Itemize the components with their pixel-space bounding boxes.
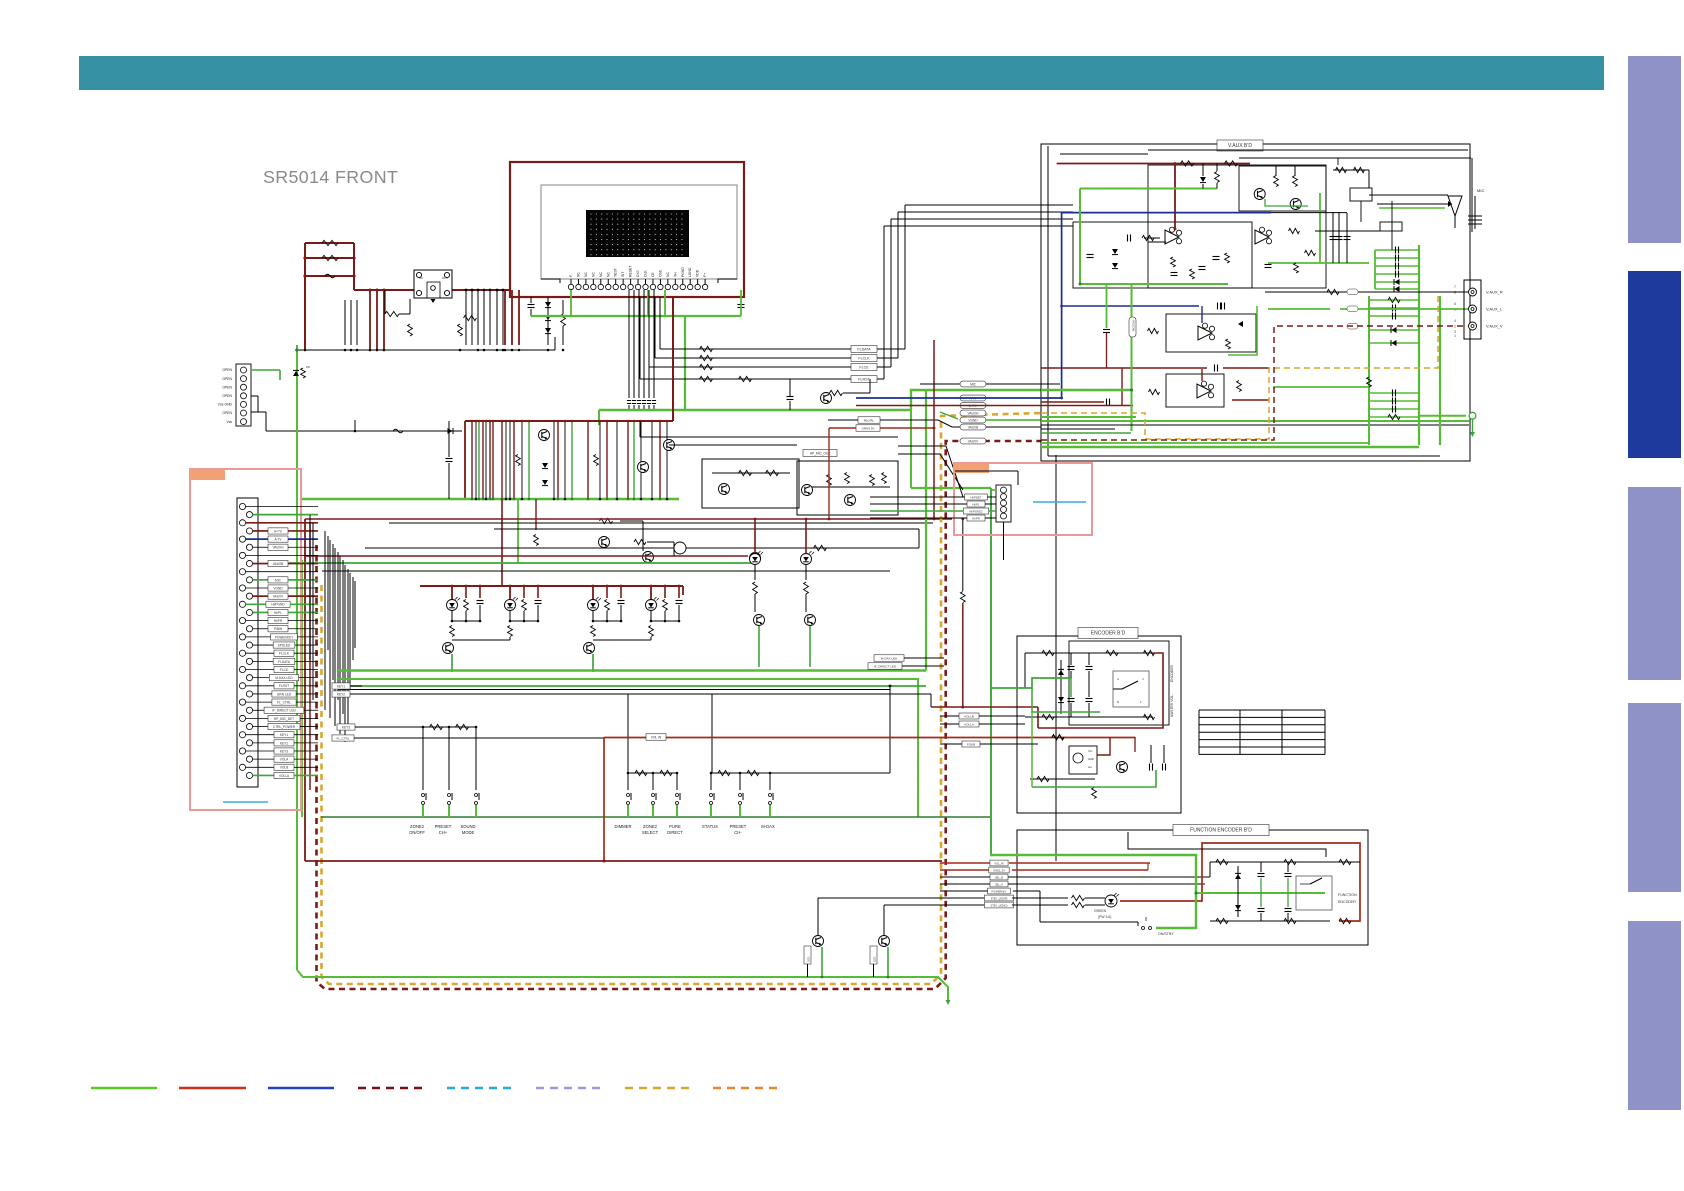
svg-text:KEY1: KEY1 <box>337 684 345 688</box>
svg-text:V.AUX_V: V.AUX_V <box>1486 324 1503 329</box>
svg-text:VH: VH <box>673 272 677 277</box>
svg-text:1: 1 <box>1454 334 1456 338</box>
svg-text:OPEN: OPEN <box>222 411 232 415</box>
svg-text:A: A <box>1117 677 1119 681</box>
svg-text:VOLLA: VOLLA <box>964 722 974 726</box>
svg-text:MIC: MIC <box>1477 188 1484 193</box>
svg-text:VAUXH: VAUXH <box>968 411 979 415</box>
svg-text:OPEN: OPEN <box>222 377 232 381</box>
svg-text:SR5014 FRONT: SR5014 FRONT <box>263 167 398 187</box>
svg-text:GREEN: GREEN <box>1094 909 1107 913</box>
svg-text:(PW 3.6): (PW 3.6) <box>1098 915 1111 919</box>
svg-text:OUT: OUT <box>442 276 449 280</box>
svg-text:STBY_LED(R): STBY_LED(R) <box>991 896 1008 900</box>
svg-text:TEST: TEST <box>614 268 618 277</box>
svg-text:KEY2: KEY2 <box>280 741 288 745</box>
svg-text:POWERKEY: POWERKEY <box>992 889 1007 893</box>
svg-text:GRN3.3V: GRN3.3V <box>862 426 875 430</box>
svg-text:VOLA: VOLA <box>280 758 289 762</box>
svg-text:INT: INT <box>621 272 625 277</box>
svg-text:HI/PDET: HI/PDET <box>970 495 981 499</box>
svg-text:HI/PGND: HI/PGND <box>271 603 285 607</box>
svg-text:VOLLB: VOLLB <box>964 714 974 718</box>
svg-text:FLRST: FLRST <box>858 377 870 381</box>
svg-text:HI/PL: HI/PL <box>274 611 282 615</box>
svg-text:NC: NC <box>591 272 595 277</box>
svg-text:V.AUX_R: V.AUX_R <box>1486 290 1503 295</box>
svg-text:CH-: CH- <box>734 830 742 835</box>
svg-text:SEL_B: SEL_B <box>995 875 1003 879</box>
svg-text:2: 2 <box>1454 325 1456 329</box>
svg-text:FLRST: FLRST <box>279 684 289 688</box>
svg-text:DX0: DX0 <box>636 270 640 277</box>
svg-text:ON/OFF: ON/OFF <box>409 830 425 835</box>
svg-text:M-DAX: M-DAX <box>761 824 775 829</box>
svg-text:SOUND: SOUND <box>460 824 475 829</box>
svg-text:out: out <box>1088 765 1092 769</box>
svg-text:DIMMER: DIMMER <box>615 824 632 829</box>
svg-text:DIRECT: DIRECT <box>667 830 683 835</box>
svg-text:OPEN: OPEN <box>222 368 232 372</box>
svg-text:CE: CE <box>651 272 655 277</box>
svg-text:Vss: Vss <box>226 420 232 424</box>
svg-text:6: 6 <box>1454 302 1456 306</box>
svg-text:HI/PGND2: HI/PGND2 <box>969 509 983 513</box>
svg-text:A+7V: A+7V <box>274 529 283 533</box>
svg-text:MIC/RL: MIC/RL <box>864 418 874 422</box>
svg-text:OPEN: OPEN <box>222 394 232 398</box>
svg-text:IF_DIRECT LED: IF_DIRECT LED <box>874 664 897 668</box>
svg-text:FLCE: FLCE <box>280 668 288 672</box>
svg-text:SPDLED: SPDLED <box>278 643 291 647</box>
svg-text:MIC: MIC <box>275 578 282 582</box>
svg-text:GND: GND <box>1088 757 1094 761</box>
svg-text:ZONE2: ZONE2 <box>643 824 658 829</box>
svg-text:HP_MIC_DET: HP_MIC_DET <box>274 717 294 721</box>
svg-text:PURE: PURE <box>669 824 681 829</box>
svg-text:HP_MIC_OUT: HP_MIC_OUT <box>810 451 831 455</box>
svg-text:LGND: LGND <box>688 267 692 277</box>
svg-text:PRESET: PRESET <box>730 824 747 829</box>
svg-text:MIC: MIC <box>970 382 977 386</box>
svg-text:SELECT: SELECT <box>642 830 659 835</box>
svg-text:NC: NC <box>599 272 603 277</box>
svg-text:KEY3: KEY3 <box>342 725 350 729</box>
svg-text:FUNCTION ENCODER B’D: FUNCTION ENCODER B’D <box>1190 827 1252 833</box>
svg-text:VAUXV: VAUXV <box>968 439 979 443</box>
svg-text:Vcc: Vcc <box>1088 749 1093 753</box>
svg-text:VDD: VDD <box>696 269 700 277</box>
svg-text:HI/PR: HI/PR <box>972 516 979 520</box>
svg-text:KEY3: KEY3 <box>280 749 288 753</box>
svg-text:OSC: OSC <box>658 269 662 277</box>
svg-text:LED: LED <box>873 957 877 962</box>
svg-text:FLCLK: FLCLK <box>279 652 290 656</box>
svg-text:Vss-GND: Vss-GND <box>218 403 233 407</box>
svg-text:F-: F- <box>569 274 573 277</box>
svg-text:VAUXH: VAUXH <box>273 546 284 550</box>
svg-text:ENCODER B’D: ENCODER B’D <box>1091 630 1126 636</box>
svg-text:STATUS: STATUS <box>702 824 718 829</box>
svg-text:M-DAX LED: M-DAX LED <box>881 656 898 660</box>
svg-text:FL_CTRL: FL_CTRL <box>336 736 349 740</box>
svg-text:CTRL_POWER: CTRL_POWER <box>273 725 296 729</box>
svg-text:A-7V: A-7V <box>274 538 282 542</box>
svg-text:P/BIN: P/BIN <box>274 627 283 631</box>
svg-text:VOLLA: VOLLA <box>279 774 290 778</box>
svg-text:GND2_3V: GND2_3V <box>993 868 1005 872</box>
svg-text:V.AUX_L: V.AUX_L <box>1486 307 1503 312</box>
svg-text:NC: NC <box>584 272 588 277</box>
svg-text:VAUXV: VAUXV <box>273 595 284 599</box>
svg-text:HI/PR: HI/PR <box>274 619 283 623</box>
svg-text:CLK: CLK <box>644 270 648 277</box>
svg-text:NC: NC <box>666 272 670 277</box>
svg-text:VGND: VGND <box>968 418 978 422</box>
svg-text:ZONE2: ZONE2 <box>410 824 425 829</box>
svg-text:MODE: MODE <box>462 830 475 835</box>
svg-text:VOL IN: VOL IN <box>651 735 662 739</box>
svg-text:NC: NC <box>576 272 580 277</box>
svg-text:KEY2: KEY2 <box>337 692 345 696</box>
svg-text:M-DAX LED: M-DAX LED <box>275 676 293 680</box>
svg-text:OPEN: OPEN <box>222 385 232 389</box>
svg-text:KEY1: KEY1 <box>280 733 288 737</box>
svg-text:IF_DIRECT LED: IF_DIRECT LED <box>272 709 296 713</box>
svg-text:VAUXB: VAUXB <box>273 562 284 566</box>
svg-text:ENCODER: ENCODER <box>1170 664 1174 682</box>
svg-text:FGKB: FGKB <box>967 742 975 746</box>
svg-text:GRN LED: GRN LED <box>277 692 292 696</box>
svg-text:FLCLK: FLCLK <box>858 356 870 360</box>
svg-text:VGND: VGND <box>273 586 283 590</box>
svg-text:FUNCTION: FUNCTION <box>1338 893 1357 897</box>
svg-text:F+: F+ <box>703 273 707 277</box>
svg-text:B: B <box>1117 700 1119 704</box>
svg-text:MASTER VOL.: MASTER VOL. <box>1170 694 1174 717</box>
svg-text:4: 4 <box>1454 319 1456 323</box>
svg-text:ENCODER: ENCODER <box>1338 900 1356 904</box>
svg-text:ON/STBY: ON/STBY <box>1158 932 1174 936</box>
svg-text:SEL_A: SEL_A <box>995 882 1003 886</box>
svg-text:VAUXB: VAUXB <box>968 425 979 429</box>
svg-text:PRESET: PRESET <box>435 824 452 829</box>
svg-text:CH+: CH+ <box>439 830 448 835</box>
svg-text:STBY_LED(G): STBY_LED(G) <box>990 903 1007 907</box>
svg-text:LED: LED <box>807 957 811 962</box>
svg-text:MIC/GND: MIC/GND <box>1132 320 1136 331</box>
svg-text:PGND: PGND <box>681 267 685 277</box>
svg-text:7: 7 <box>1454 285 1456 289</box>
svg-text:FLDATA: FLDATA <box>278 660 291 664</box>
svg-text:POWERKEY: POWERKEY <box>275 635 294 639</box>
svg-text:V.AUX B’D: V.AUX B’D <box>1228 143 1252 149</box>
svg-text:VOLB: VOLB <box>280 766 289 770</box>
svg-text:VOL_IN: VOL_IN <box>994 861 1003 865</box>
svg-text:RESET: RESET <box>629 266 633 277</box>
svg-text:HI/PL: HI/PL <box>973 502 980 506</box>
svg-text:FL_CTRL: FL_CTRL <box>277 701 291 705</box>
svg-text:FLCE: FLCE <box>859 365 869 369</box>
svg-text:FLDATA: FLDATA <box>857 347 871 351</box>
svg-text:NC: NC <box>606 272 610 277</box>
